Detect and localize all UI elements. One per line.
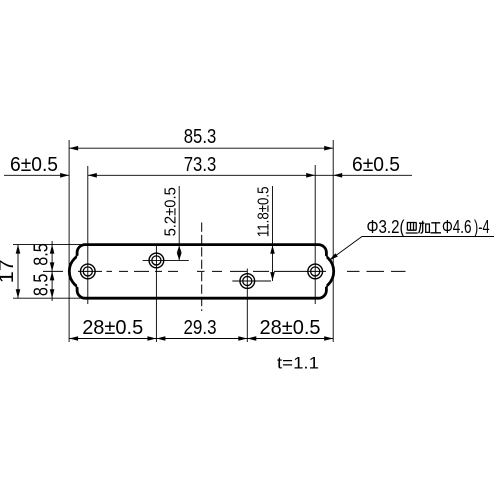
hole H3 horizontal crosshair	[232, 280, 271, 282]
hole H4 vertical crosshair / extension line for 73.3	[314, 165, 316, 304]
dimension 85.3 line	[69, 147, 333, 149]
bottom dimension line row y=338.5	[69, 338, 333, 340]
hole H2 (countersunk)	[149, 253, 164, 268]
dimension 8.5/8.5 line	[51, 241, 53, 301]
dimension 17 line	[17, 245, 19, 299]
hole H2 vertical crosshair / extension to bottom dim	[155, 246, 157, 342]
svg-text:6±0.5: 6±0.5	[10, 154, 58, 176]
svg-text:6±0.5: 6±0.5	[352, 154, 400, 176]
arrow 8.5 bottom (tip at bottom edge)	[50, 289, 55, 298]
extension line top edge (left)	[13, 244, 85, 246]
arrow 6 left	[60, 173, 69, 178]
plate outline: left end bump	[69, 253, 106, 290]
arrows at hole2 ext (double)	[147, 336, 156, 341]
svg-text:Φ4.6: Φ4.6	[442, 216, 472, 237]
svg-text:17: 17	[0, 259, 18, 283]
leader line to hole note	[329, 237, 494, 261]
hole H2 horizontal crosshair	[143, 259, 189, 261]
hole H1 vertical crosshair / extension line for 73.3	[87, 166, 89, 304]
svg-text:73.3: 73.3	[184, 154, 217, 176]
svg-text:Φ3.2(: Φ3.2(	[367, 216, 406, 237]
kanji 皿 (hand drawn)	[406, 223, 418, 234]
dimension 85.3 left arrow	[69, 146, 78, 151]
arrow 73.3 right	[306, 173, 315, 178]
arrow 11.8 up (tip at top edge)	[270, 245, 275, 254]
hole H3 (countersunk)	[240, 274, 255, 289]
hole H3 vertical crosshair / extension to bottom dim	[246, 269, 248, 343]
kanji 工 (hand drawn)	[431, 223, 442, 233]
extension line left plate end	[68, 140, 70, 342]
dimension 85.3 right arrow	[324, 146, 333, 151]
plate outline: bump strokes clipped outside body	[69, 253, 333, 290]
dimension 11.8 extension/dim line	[272, 186, 274, 281]
svg-text:28±0.5: 28±0.5	[82, 317, 143, 339]
arrow 28 right R	[324, 336, 333, 341]
extension line bottom edge (left)	[13, 297, 85, 299]
arrow 6 right	[333, 173, 342, 178]
arrows 8.5 at centerline (diamond)	[50, 262, 55, 271]
dim line 6 left	[4, 174, 69, 176]
svg-text:8.5: 8.5	[31, 274, 53, 297]
arrow 5.2 down (tip at hole2 line)	[177, 253, 182, 260]
dim line 73.3	[88, 174, 315, 176]
svg-text:85.3: 85.3	[184, 126, 217, 148]
plate outline: right end bump	[297, 253, 334, 290]
leader arrowhead	[329, 253, 338, 260]
extension line right plate end	[332, 140, 334, 342]
svg-text:11.8±0.5: 11.8±0.5	[256, 186, 273, 237]
kanji 加 (hand drawn)	[419, 221, 430, 233]
svg-text:8.5: 8.5	[31, 243, 53, 266]
vertical mid centerline (dashed)	[201, 223, 203, 312]
arrow 28 left L	[69, 336, 78, 341]
svg-text:)-4: )-4	[474, 216, 490, 237]
svg-text:t=1.1: t=1.1	[277, 354, 319, 373]
svg-text:5.2±0.5: 5.2±0.5	[162, 187, 179, 236]
plate outline: body rounded-rect	[77, 245, 326, 299]
svg-text:28±0.5: 28±0.5	[260, 317, 321, 339]
arrow 73.3 left	[88, 173, 97, 178]
arrow 17 top	[16, 245, 21, 254]
svg-text:29.3: 29.3	[184, 317, 217, 339]
hole H1 (left end, countersunk)	[80, 264, 95, 279]
hole H4 (right end, countersunk)	[308, 264, 323, 279]
arrow 5.2 up (tip at top edge)	[177, 246, 182, 253]
arrow 17 bottom	[16, 289, 21, 298]
dimension 5.2 extension/dim line	[178, 186, 180, 260]
arrow 8.5 top (tip at top edge)	[50, 245, 55, 254]
arrows at hole3 ext (double)	[238, 336, 247, 341]
dim line 6 right (between ext lines and tail outside)	[315, 174, 412, 176]
arrow 11.8 down (tip at hole3 line)	[270, 272, 275, 281]
horizontal centerline (dash-dot)	[43, 270, 406, 272]
